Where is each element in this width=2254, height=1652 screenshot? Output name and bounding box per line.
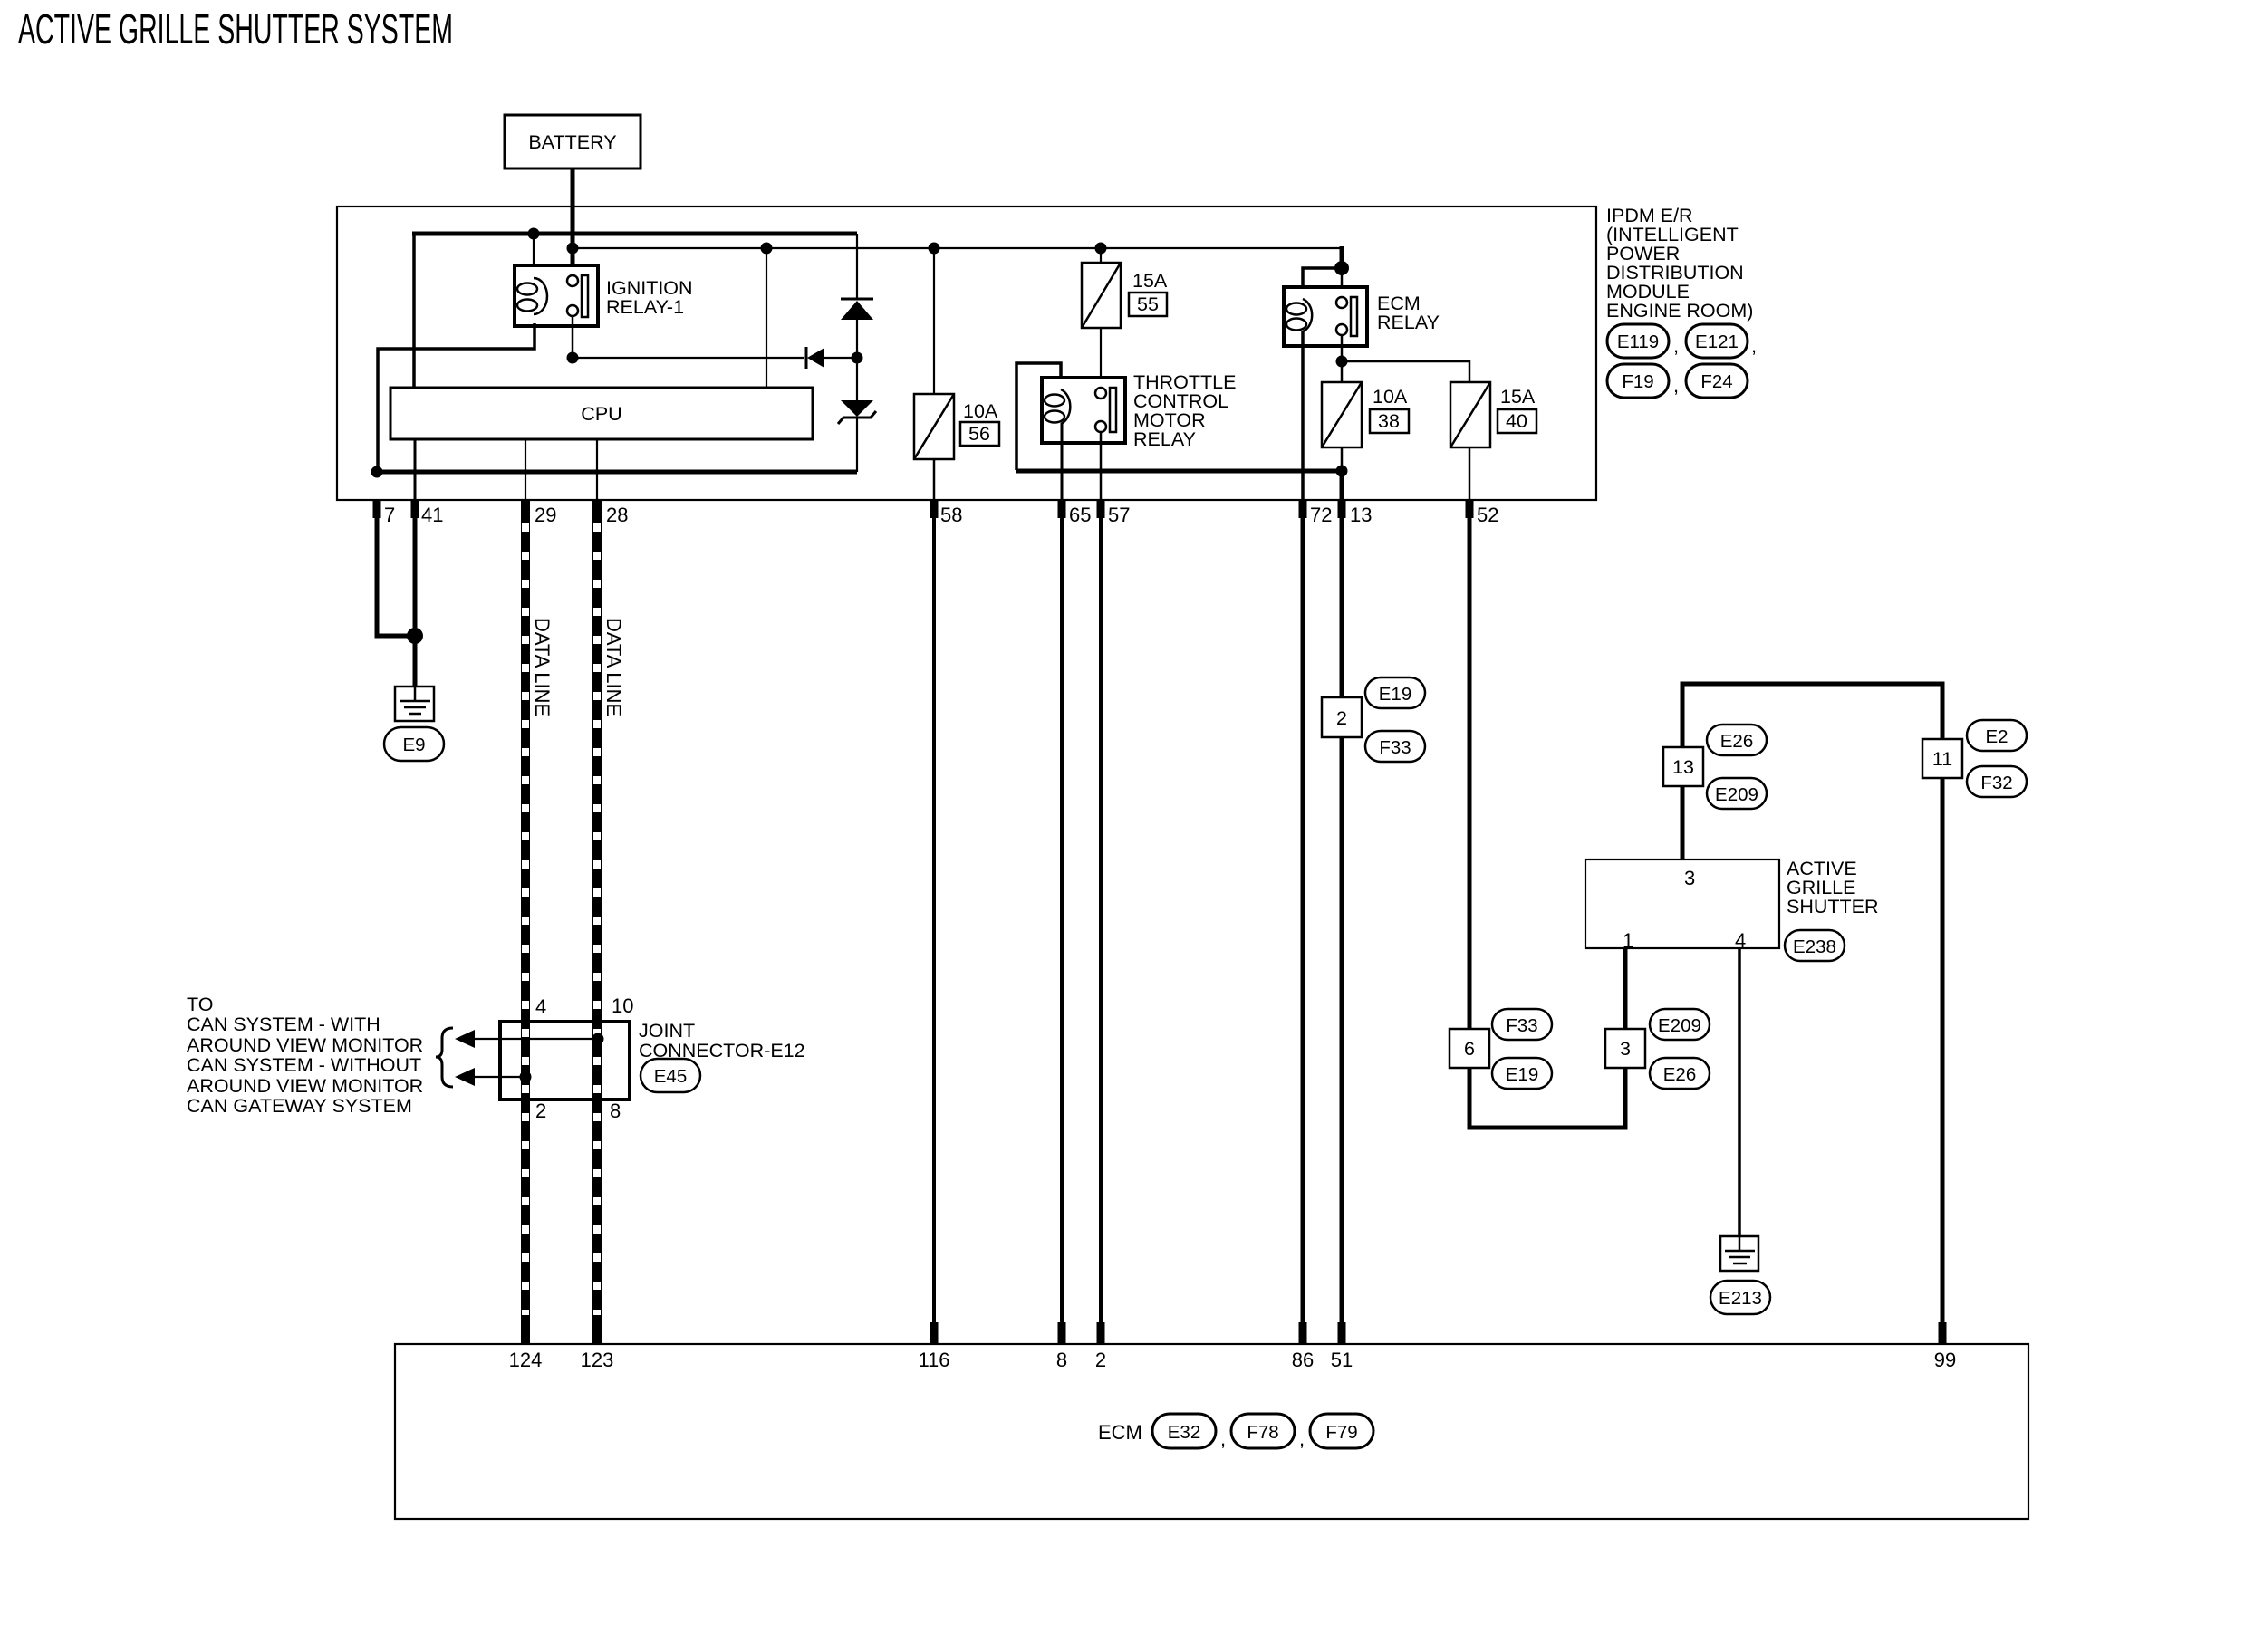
svg-text:10A: 10A (1373, 386, 1408, 408)
ECM pin stubs (522, 1322, 1947, 1344)
svg-text:7: 7 (384, 504, 395, 526)
svg-text:10: 10 (612, 994, 633, 1017)
arrow to CAN with AVM (455, 1030, 598, 1048)
node ECM relay feed (1334, 261, 1349, 275)
connector F32 (1967, 766, 2027, 797)
ground symbol E213 (1720, 1236, 1758, 1271)
node fuse split (1336, 356, 1348, 368)
svg-text:3: 3 (1620, 1038, 1631, 1060)
svg-text:E238: E238 (1793, 936, 1836, 957)
svg-text:4: 4 (535, 995, 546, 1018)
label THROTTLE CONTROL MOTOR RELAY (1133, 371, 1236, 450)
node pin7 junction (371, 466, 383, 478)
svg-text:E19: E19 (1379, 684, 1411, 705)
svg-text:123: 123 (581, 1349, 614, 1371)
wire 28 CPU to border (596, 439, 598, 500)
svg-text:51: 51 (1331, 1349, 1353, 1371)
wire ECM relay contact bottom (1341, 335, 1344, 361)
connector E9 (384, 727, 444, 761)
connector 6 inline (1450, 1029, 1489, 1068)
wire line B to fuse 55 (1100, 248, 1102, 263)
svg-text:13: 13 (1672, 756, 1694, 778)
wire line B to CPU (766, 248, 767, 388)
svg-text:E213: E213 (1719, 1288, 1762, 1309)
zener diode D3 (838, 400, 876, 424)
connector E26 (1707, 725, 1767, 755)
svg-text:2: 2 (1095, 1349, 1106, 1371)
fuse F40 15A (1450, 382, 1490, 447)
connector 2 inline (1322, 697, 1362, 737)
svg-text:F32: F32 (1980, 773, 2012, 793)
svg-text:F78: F78 (1247, 1422, 1278, 1443)
wire connector 11 to ECM 99 (1941, 778, 1945, 1344)
diode D1 upward (841, 299, 873, 320)
svg-text:E119: E119 (1617, 331, 1659, 352)
node line B fuse 56 branch (929, 243, 940, 255)
diode D2 left-pointing (806, 347, 824, 369)
wire top link 13 to 11 (1682, 684, 1942, 747)
ground symbol E9 (395, 687, 434, 721)
label 10A 56 (960, 400, 999, 446)
label ECM RELAY (1377, 293, 1440, 333)
wire AGS pin 3 riser (1681, 786, 1685, 860)
svg-text:124: 124 (509, 1349, 543, 1371)
svg-text:RELAY: RELAY (1133, 428, 1196, 450)
svg-text:E32: E32 (1168, 1422, 1200, 1443)
wire ignition relay coil top (533, 234, 535, 279)
svg-text:57: 57 (1108, 504, 1130, 526)
wire 65 to ECM 8 (1060, 500, 1064, 1344)
svg-text:CAN SYSTEM - WITHOUT: CAN SYSTEM - WITHOUT (187, 1054, 421, 1076)
connector F24 (1686, 364, 1748, 398)
wire 29 CPU to border (525, 439, 526, 500)
svg-text:1: 1 (1623, 929, 1633, 952)
svg-text:86: 86 (1292, 1349, 1314, 1371)
svg-text:E209: E209 (1715, 784, 1758, 805)
wire pin 7 to ground junction (377, 500, 412, 636)
svg-text:ENGINE ROOM): ENGINE ROOM) (1606, 300, 1753, 322)
wire ignition relay contact bottom (572, 316, 574, 358)
fuse F56 10A (914, 394, 954, 459)
connector F33 lower (1492, 1009, 1552, 1040)
node joint connector line 1 (592, 1033, 604, 1045)
svg-text:28: 28 (606, 504, 628, 526)
node line A coil branch (528, 228, 540, 240)
svg-text:52: 52 (1477, 504, 1498, 526)
wire D1 to node (856, 320, 858, 400)
arrow to CAN without AVM (455, 1068, 525, 1086)
connector 13 inline (1663, 747, 1703, 786)
wire line A CPU to ignition relay coil top (412, 232, 857, 388)
svg-text:E19: E19 (1506, 1064, 1538, 1085)
wire 52 to connector 6 (1468, 500, 1472, 1029)
svg-text:11: 11 (1932, 748, 1952, 770)
svg-text:BATTERY: BATTERY (528, 131, 616, 153)
svg-text:2: 2 (535, 1100, 546, 1122)
connector E19 lower (1492, 1058, 1552, 1089)
wire ECM relay coil link (1303, 268, 1342, 300)
svg-text:JOINT: JOINT (639, 1020, 695, 1042)
battery B1 (505, 115, 641, 168)
wire ground bus y521 (377, 470, 857, 475)
node diode junction (852, 352, 863, 364)
svg-text:TO: TO (187, 994, 213, 1015)
svg-text:8: 8 (610, 1100, 621, 1122)
connector E2 (1967, 720, 2027, 751)
svg-text:E2: E2 (1985, 726, 2008, 747)
fuse F55 15A (1082, 263, 1121, 328)
svg-text:15A: 15A (1500, 386, 1536, 408)
connector E19 (1365, 677, 1425, 708)
wire to ground E9 (413, 636, 418, 688)
connector E238 (1785, 930, 1845, 961)
connector 3 inline (1605, 1029, 1645, 1068)
svg-text:RELAY-1: RELAY-1 (606, 296, 684, 318)
svg-text:CAN SYSTEM - WITH: CAN SYSTEM - WITH (187, 1013, 380, 1035)
svg-text:DATA LINE: DATA LINE (602, 618, 625, 716)
svg-text:99: 99 (1934, 1349, 1956, 1371)
svg-text:29: 29 (535, 504, 556, 526)
svg-text:40: 40 (1506, 410, 1527, 432)
wire battery to ignition relay contact (571, 168, 575, 276)
svg-text:56: 56 (968, 423, 990, 445)
svg-text:,: , (1673, 374, 1679, 397)
connector E26 lower (1650, 1058, 1710, 1089)
svg-text:41: 41 (421, 504, 443, 526)
svg-text:65: 65 (1069, 504, 1091, 526)
svg-text:AROUND VIEW MONITOR: AROUND VIEW MONITOR (187, 1075, 423, 1097)
svg-text:CAN GATEWAY SYSTEM: CAN GATEWAY SYSTEM (187, 1095, 412, 1117)
svg-text:F33: F33 (1379, 737, 1411, 758)
wire throttle relay coil top feed (1016, 363, 1061, 470)
ignition relay U2 (515, 265, 598, 326)
wire ignition coil bottom to ground bus (378, 323, 535, 470)
wire 72 to ECM 86 (1301, 500, 1305, 1344)
node line B CPU branch (761, 243, 773, 255)
wire 58 to ECM 116 (932, 500, 936, 1344)
node fuse 38 output (1336, 466, 1348, 477)
CPU U3 (390, 388, 813, 439)
svg-text:,: , (1220, 1427, 1226, 1450)
svg-text:E45: E45 (654, 1066, 687, 1087)
wire 57 to ECM 2 (1099, 500, 1103, 1344)
node joint connector line 2 (520, 1071, 532, 1083)
ECM module box (395, 1344, 2028, 1519)
connector E209 lower (1650, 1009, 1710, 1040)
wire fuse 38 to pin 13 (1341, 447, 1344, 471)
wire U-link connector 6 to connector 3 (1469, 1068, 1625, 1128)
svg-text:F79: F79 (1325, 1422, 1357, 1443)
wire 13 to ECM 51 (1340, 500, 1344, 1344)
svg-text:15A: 15A (1132, 270, 1168, 292)
label IPDM E/R block (1606, 205, 1753, 322)
brace (436, 1028, 453, 1087)
label TO CAN systems (187, 994, 423, 1117)
connector F19 (1607, 364, 1679, 398)
svg-text:F24: F24 (1700, 371, 1732, 392)
wire to fuse 38 (1341, 361, 1344, 382)
wire throttle contact bottom to pin 57 (1100, 432, 1103, 500)
wire pin 41 to ground junction (413, 500, 418, 636)
svg-text:2: 2 (1336, 707, 1347, 729)
svg-text:ACTIVE GRILLE SHUTTER SYSTEM: ACTIVE GRILLE SHUTTER SYSTEM (18, 5, 453, 53)
label ACTIVE GRILLE SHUTTER (1787, 858, 1879, 917)
node ground junction (407, 628, 423, 644)
joint connector E12 box (500, 1022, 630, 1100)
svg-text:E26: E26 (1663, 1064, 1696, 1085)
wire ECM relay contact top (1341, 268, 1344, 298)
node line B fuse 55 branch (1095, 243, 1107, 255)
svg-text:,: , (1673, 334, 1679, 357)
connector F78 (1231, 1414, 1305, 1450)
wire fuse 55 to throttle relay contact (1100, 328, 1102, 388)
wire throttle coil bottom to pin 65 (1061, 423, 1064, 500)
wire line B end to ECM relay (1340, 246, 1344, 270)
wire line B battery feed bus (573, 247, 1342, 249)
wire diode row (573, 357, 857, 359)
svg-text:ECM: ECM (1098, 1421, 1142, 1444)
IPDM E/R module box (337, 206, 1596, 500)
label 15A 55 (1129, 270, 1168, 316)
svg-text:F19: F19 (1622, 371, 1653, 392)
connector E121 (1686, 324, 1757, 358)
svg-text:13: 13 (1350, 504, 1372, 526)
wire throttle feed bus y520 (1016, 469, 1342, 474)
svg-text:72: 72 (1310, 504, 1332, 526)
wire fuse 56 to pin 58 (933, 459, 936, 500)
active grille shutter M1 (1585, 860, 1779, 948)
wire CAN-L data line dashed (592, 500, 602, 1344)
connector E32 (1152, 1414, 1226, 1450)
label IGNITION RELAY-1 (606, 277, 693, 318)
connector 11 inline (1922, 739, 1962, 778)
svg-text:8: 8 (1056, 1349, 1067, 1371)
wire branch to fuse 40 (1342, 361, 1469, 382)
label JOINT CONNECTOR-E12 (639, 1020, 805, 1061)
wire CAN-H data line dashed (521, 500, 530, 1344)
wire AGS pin 4 to ground (1738, 948, 1741, 1239)
svg-text:SHUTTER: SHUTTER (1787, 896, 1879, 917)
svg-text:E9: E9 (402, 735, 425, 755)
svg-text:58: 58 (940, 504, 962, 526)
wire ECM relay coil bottom to pin 72 (1301, 331, 1305, 500)
ECM relay U5 (1284, 287, 1367, 346)
wire zener to ground bus (856, 417, 858, 472)
connector E119 (1607, 324, 1679, 358)
IPDM pin stubs (373, 500, 1474, 518)
svg-text:,: , (1751, 334, 1757, 357)
wire diode chain vertical (856, 234, 858, 300)
svg-text:116: 116 (918, 1349, 949, 1371)
wire connector 3 to AGS pin 1 (1623, 948, 1628, 1029)
svg-text:DATA LINE: DATA LINE (531, 618, 554, 716)
svg-text:3: 3 (1684, 867, 1695, 889)
svg-text:F33: F33 (1506, 1015, 1537, 1036)
node contact bottom / diode line (567, 352, 579, 364)
svg-text:55: 55 (1137, 293, 1159, 315)
connector E45 (641, 1059, 700, 1092)
wire node to pin 13 (1340, 471, 1344, 500)
connector F33 (1365, 731, 1425, 762)
fuse F38 10A (1322, 382, 1362, 447)
svg-text:,: , (1299, 1427, 1305, 1450)
connector E213 (1710, 1281, 1770, 1314)
svg-text:10A: 10A (963, 400, 998, 422)
label 10A 38 (1370, 386, 1409, 433)
connector F79 (1310, 1414, 1373, 1448)
svg-text:RELAY: RELAY (1377, 312, 1440, 333)
throttle control motor relay U4 (1042, 378, 1125, 443)
connector E209 (1707, 778, 1767, 809)
svg-text:6: 6 (1464, 1038, 1475, 1060)
wire pin 41 from CPU (414, 439, 417, 500)
label 15A 40 (1498, 386, 1536, 433)
svg-text:E26: E26 (1720, 731, 1753, 752)
svg-text:CPU: CPU (581, 403, 621, 425)
wire fuse 40 to pin 52 (1469, 447, 1471, 500)
wire line B to fuse 56 (933, 248, 935, 394)
svg-text:E209: E209 (1658, 1015, 1701, 1036)
svg-text:E121: E121 (1695, 331, 1739, 352)
svg-text:38: 38 (1378, 410, 1400, 432)
node battery / line B (567, 243, 579, 255)
svg-text:AROUND VIEW MONITOR: AROUND VIEW MONITOR (187, 1034, 423, 1056)
